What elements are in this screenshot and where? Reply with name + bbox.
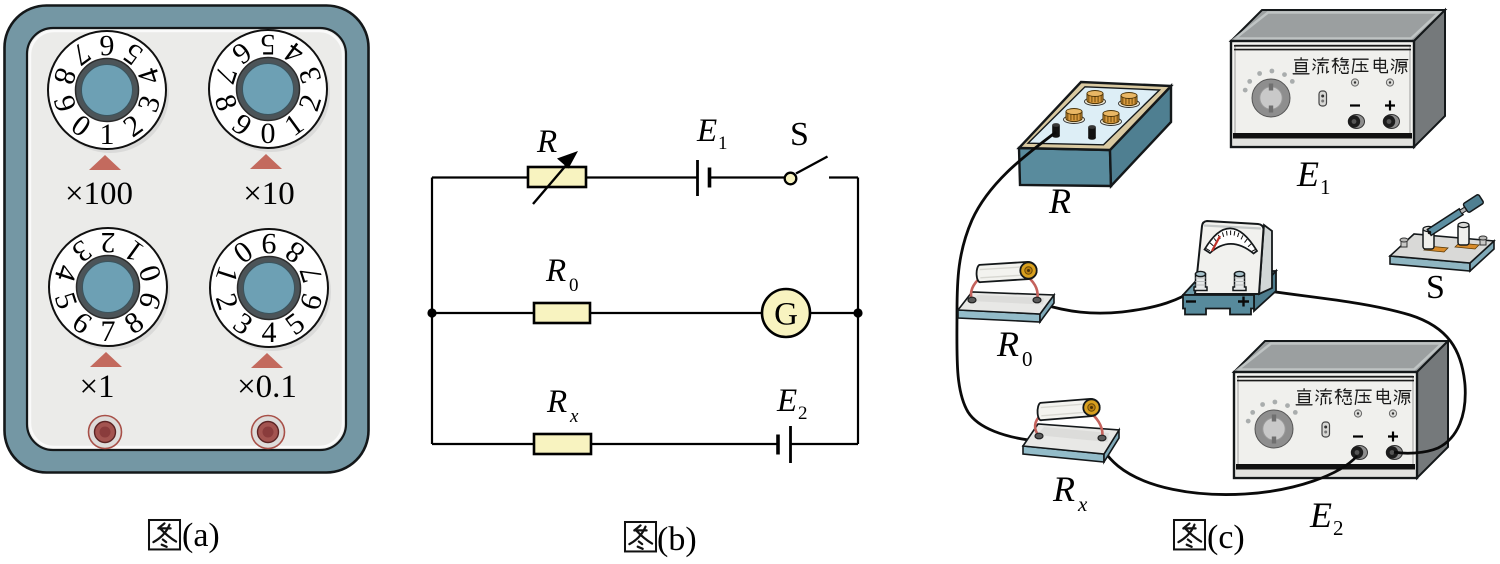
svg-text:R: R	[545, 253, 566, 289]
svg-text:5: 5	[261, 28, 276, 61]
svg-text:2: 2	[101, 226, 116, 259]
svg-text:1: 1	[1320, 175, 1331, 199]
svg-text:S: S	[1426, 269, 1445, 306]
svg-text:0: 0	[569, 275, 579, 296]
svg-text:S: S	[790, 116, 809, 153]
svg-text:1: 1	[718, 133, 728, 154]
svg-text:R: R	[546, 384, 567, 420]
svg-text:9: 9	[262, 227, 277, 260]
svg-text:x: x	[569, 406, 579, 427]
svg-text:R: R	[536, 124, 557, 160]
svg-text:E: E	[1309, 495, 1332, 535]
svg-text:0: 0	[1022, 347, 1033, 371]
svg-text:E: E	[776, 383, 797, 419]
svg-text:(c): (c)	[1207, 519, 1245, 556]
svg-text:R: R	[996, 324, 1019, 364]
svg-text:×1: ×1	[79, 369, 114, 405]
svg-text:×10: ×10	[243, 176, 295, 212]
svg-text:2: 2	[798, 403, 808, 424]
svg-text:4: 4	[262, 316, 277, 349]
svg-text:R: R	[1052, 469, 1075, 509]
svg-text:(b): (b)	[657, 521, 697, 558]
svg-text:1: 1	[100, 118, 115, 151]
svg-text:x: x	[1077, 492, 1088, 516]
svg-text:R: R	[1048, 181, 1071, 221]
svg-text:2: 2	[1333, 516, 1344, 540]
svg-text:G: G	[774, 297, 798, 333]
svg-text:E: E	[696, 113, 717, 149]
svg-text:0: 0	[261, 117, 276, 150]
svg-text:E: E	[1296, 154, 1319, 194]
svg-text:6: 6	[100, 29, 115, 62]
svg-text:(a): (a)	[182, 517, 220, 554]
svg-text:7: 7	[101, 315, 116, 348]
svg-text:×0.1: ×0.1	[237, 369, 297, 405]
svg-text:×100: ×100	[65, 176, 133, 212]
